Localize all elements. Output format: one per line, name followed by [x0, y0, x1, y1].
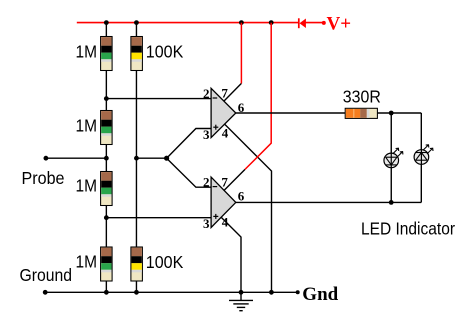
wire U1A pin7 to V+: [224, 83, 242, 101]
resistor R6 100K: [131, 247, 184, 281]
node gnd junction 2: [134, 290, 139, 295]
wire fan to pin3 of U1A: [167, 129, 212, 159]
LED D3: [414, 145, 433, 165]
svg-text:4: 4: [222, 126, 229, 141]
wire LED2 top lead: [420, 113, 422, 164]
diode D1: [299, 18, 306, 28]
svg-text:3: 3: [203, 216, 210, 231]
node rail junction 1: [104, 20, 109, 25]
resistor R4 1M: [76, 247, 113, 281]
svg-text:330R: 330R: [343, 87, 381, 107]
wire left resistor column 1: [105, 23, 107, 293]
svg-text:7: 7: [221, 86, 228, 101]
svg-text:1M: 1M: [76, 42, 98, 62]
node R1-R2 junction: [104, 96, 109, 101]
wire probe line: [46, 157, 106, 159]
svg-text:2: 2: [203, 175, 210, 190]
resistor R7 330R: [343, 87, 381, 119]
svg-text:1M: 1M: [76, 116, 98, 136]
wire resistor column 2: [135, 23, 137, 293]
svg-text:7: 7: [221, 174, 228, 189]
resistor R1 1M: [76, 37, 113, 71]
node input fan: [164, 156, 169, 161]
wire LED1 top lead: [390, 113, 392, 168]
svg-text:1M: 1M: [76, 252, 98, 272]
wire ground rail: [45, 291, 298, 293]
node gnd junction 1: [104, 290, 109, 295]
wire LED1 bottom lead: [390, 168, 392, 203]
node R3-R4 junction: [104, 215, 109, 220]
node probe end: [44, 156, 49, 161]
svg-text:6: 6: [238, 189, 245, 204]
node divider mid: [134, 156, 139, 161]
node V+: [322, 21, 326, 25]
LED D2: [384, 148, 403, 168]
svg-text:2: 2: [203, 86, 210, 101]
wire LED2 bottom lead: [420, 164, 422, 202]
op-amp U1A: [203, 86, 245, 142]
svg-text:Gnd: Gnd: [302, 284, 338, 305]
svg-text:3: 3: [203, 127, 210, 142]
wire divider mid stub: [136, 157, 166, 159]
wire U1B pin4 to ground: [221, 217, 241, 292]
node output top junction: [389, 111, 394, 116]
node Gnd: [296, 290, 300, 294]
op-amp U1B: [203, 174, 245, 231]
svg-text:6: 6: [238, 100, 245, 115]
node output bottom junction: [389, 200, 394, 205]
node gnd junction 3: [239, 290, 244, 295]
wire U1B pin7 to V+: [224, 169, 245, 190]
svg-text:Ground: Ground: [20, 265, 73, 285]
resistor R2 1M: [76, 111, 113, 145]
ground: [229, 292, 253, 310]
wire to pin3 of U1B: [106, 217, 211, 219]
node rail junction 4: [269, 20, 274, 25]
wire U1A pin4 to ground: [225, 124, 272, 292]
svg-text:100K: 100K: [146, 42, 184, 62]
node rail junction 2: [134, 20, 139, 25]
node rail junction 3: [239, 20, 244, 25]
wire U1B output line: [236, 201, 421, 203]
svg-text:LED Indicator: LED Indicator: [361, 219, 455, 239]
svg-text:Probe: Probe: [22, 168, 65, 188]
svg-text:1M: 1M: [76, 176, 98, 196]
wire U1A output to 330R and LEDs: [236, 112, 421, 114]
svg-text:100K: 100K: [146, 252, 184, 272]
resistor R3 1M: [76, 172, 113, 206]
node gnd junction 4: [269, 290, 274, 295]
resistor R5 100K: [131, 37, 184, 71]
svg-text:V+: V+: [327, 14, 352, 35]
node 1M chain mid: [104, 156, 109, 161]
wire to pin2 of U1A: [106, 98, 211, 100]
wire V+ rail: [77, 22, 324, 24]
svg-text:4: 4: [222, 214, 229, 229]
wire fan to pin2 of U1B: [167, 158, 212, 187]
node ground end: [43, 290, 48, 295]
